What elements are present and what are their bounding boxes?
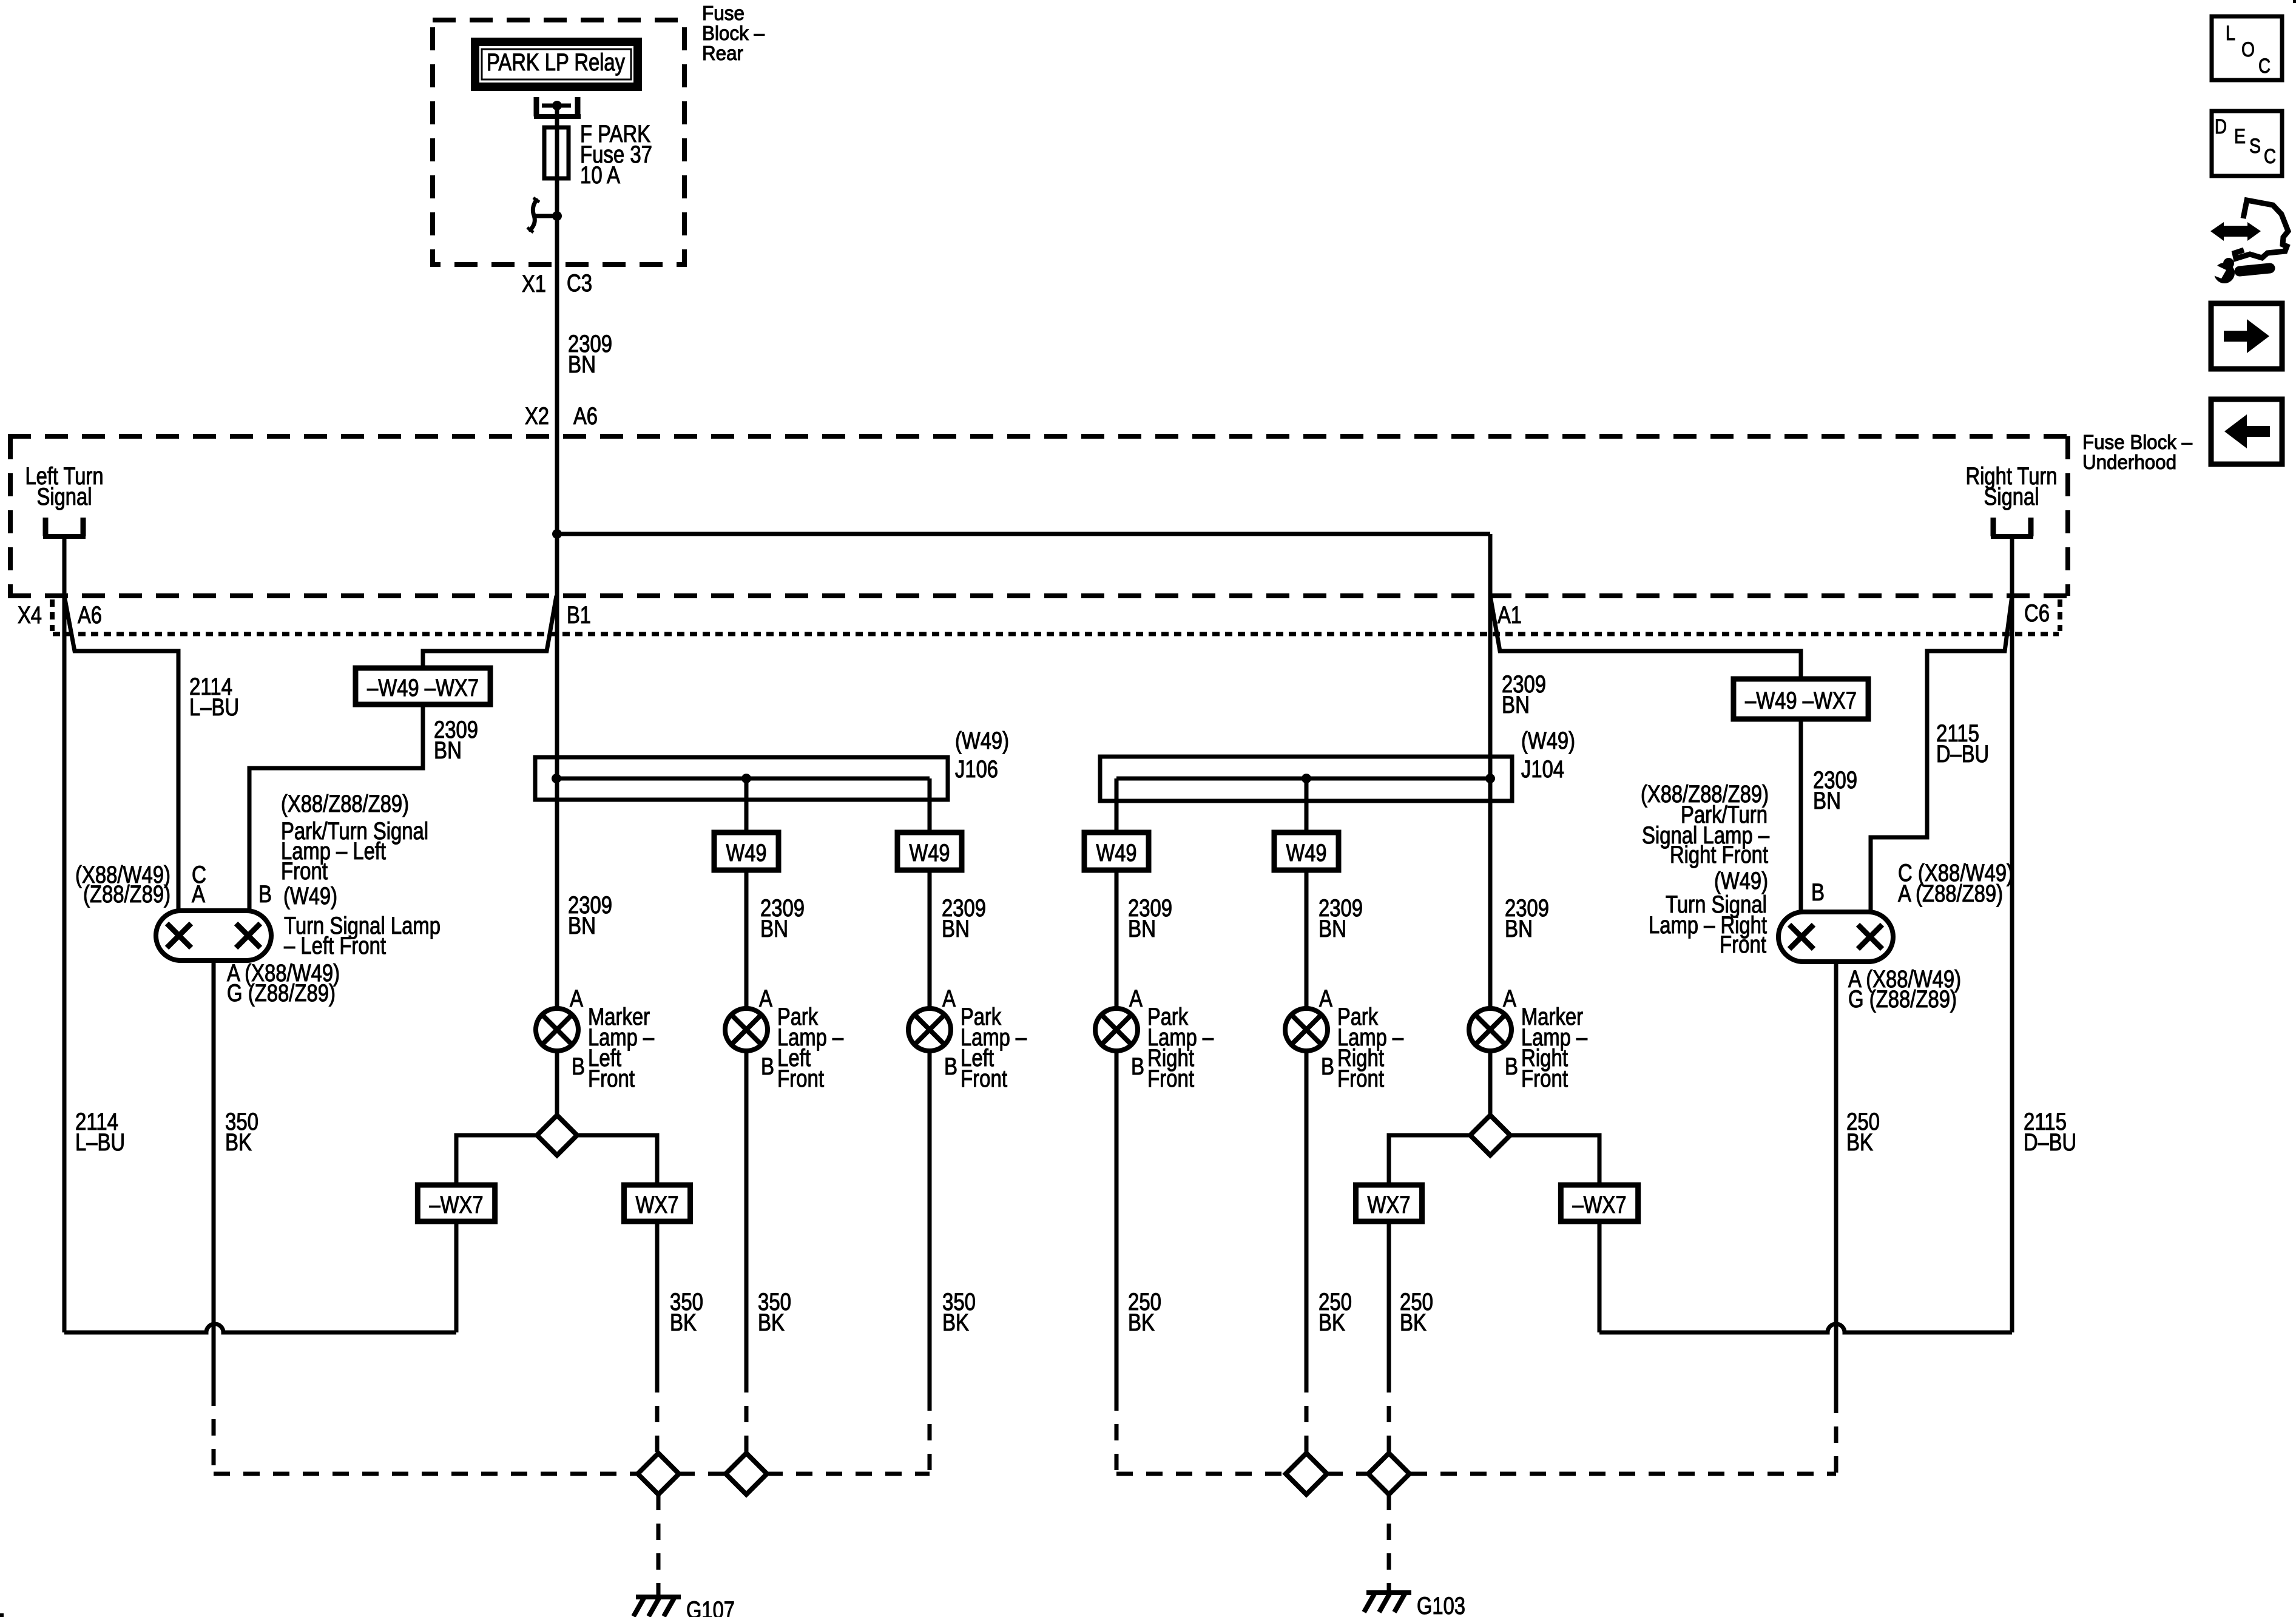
svg-text:A: A [942, 985, 956, 1012]
wire splice to -WX7 left [456, 1135, 537, 1185]
svg-text:Signal: Signal [1984, 484, 2039, 510]
svg-text:BK: BK [758, 1309, 785, 1336]
ground diamond park L1 [726, 1453, 767, 1494]
svg-text:(Z88/Z89): (Z88/Z89) [83, 881, 171, 908]
icon diagnostic (arrow wrench) [2207, 200, 2288, 283]
svg-text:C: C [2264, 145, 2276, 168]
wire WX7 right down [1387, 1221, 1391, 1376]
svg-text:B: B [1505, 1053, 1518, 1080]
wire W49 box1 to park lamp [745, 870, 749, 1008]
wire left turn signal down [62, 536, 67, 1332]
svg-text:BN: BN [1505, 916, 1533, 942]
wire W49 box4 to park lamp [1305, 870, 1309, 1008]
svg-text:–W49 –WX7: –W49 –WX7 [1745, 687, 1857, 714]
wire marker R to splice [1488, 1051, 1493, 1115]
svg-text:Front: Front [1521, 1065, 1568, 1092]
svg-text:BN: BN [1319, 916, 1346, 942]
svg-text:S: S [2249, 135, 2261, 158]
svg-text:Front: Front [1337, 1065, 1384, 1092]
fuse block - rear dashed box [433, 20, 684, 265]
svg-text:(W49): (W49) [283, 883, 337, 910]
svg-text:G107: G107 [686, 1597, 735, 1617]
option box WX7 right [1356, 1185, 1422, 1221]
svg-text:Front: Front [281, 858, 328, 885]
svg-text:J104: J104 [1521, 756, 1564, 783]
svg-text:B: B [761, 1053, 774, 1080]
wire to G107 [657, 1494, 661, 1595]
svg-text:D–BU: D–BU [2024, 1129, 2076, 1156]
svg-text:BN: BN [760, 916, 788, 942]
page corner mark top-right [2293, 0, 2296, 3]
svg-text:W49: W49 [1096, 840, 1137, 866]
wire park L1 ground [745, 1051, 749, 1376]
svg-text:PARK LP Relay: PARK LP Relay [487, 49, 625, 76]
relay contact switch symbol [552, 211, 562, 221]
svg-text:(W49): (W49) [1521, 727, 1575, 754]
junction block J106 [535, 757, 948, 800]
svg-text:L: L [2226, 22, 2235, 45]
horizontal 2114 wire with hop left [64, 1324, 456, 1332]
svg-text:B: B [944, 1053, 957, 1080]
park lamp - right front 1 [1095, 1008, 1138, 1051]
ground G103 [1366, 1590, 1411, 1595]
wire right turn lamp ground [1834, 962, 1838, 1397]
wire left turn lamp ground [212, 960, 216, 1389]
wire W49 box3 to park lamp [1115, 870, 1119, 1008]
wire marker L to splice [555, 1051, 559, 1115]
svg-text:Front: Front [1147, 1065, 1194, 1092]
svg-text:C6: C6 [2024, 600, 2050, 627]
svg-text:W49: W49 [910, 840, 950, 866]
svg-text:(W49): (W49) [955, 727, 1009, 754]
marker lamp - left front [536, 1008, 578, 1051]
wire A1 vertical [1488, 534, 1493, 778]
fuse block - underhood dashed box [8, 434, 2070, 439]
wire junction main to A1 [552, 529, 562, 539]
wire A6 branch slant [64, 596, 178, 911]
wire fuse to relay contact [555, 181, 559, 216]
horizontal 2115 wire with hop right [1599, 1324, 2012, 1332]
svg-text:BN: BN [1502, 692, 1530, 718]
svg-text:BK: BK [1846, 1129, 1873, 1156]
svg-text:A: A [1129, 985, 1143, 1012]
connector separator right [2058, 599, 2062, 631]
park lamp - left front 1 [725, 1008, 768, 1051]
page corner mark bottom-left [0, 1613, 4, 1617]
connector row dotted line [53, 632, 2059, 636]
svg-text:Front: Front [961, 1065, 1007, 1092]
svg-text:X2: X2 [525, 403, 549, 430]
svg-text:BN: BN [1128, 916, 1156, 942]
relay PARK LP Relay box [475, 42, 638, 87]
svg-text:A: A [1319, 985, 1332, 1012]
right turn signal switch terminal [1991, 518, 1996, 536]
svg-text:B: B [572, 1053, 585, 1080]
svg-text:– Left Front: – Left Front [284, 933, 386, 959]
svg-text:W49: W49 [726, 840, 767, 866]
junction block J104 [1100, 757, 1512, 801]
svg-text:BN: BN [434, 737, 462, 764]
svg-text:Fuse Block –: Fuse Block – [2082, 431, 2193, 453]
svg-text:G (Z88/Z89): G (Z88/Z89) [227, 980, 336, 1007]
W49 box 3 [1084, 832, 1149, 870]
svg-text:B: B [258, 881, 272, 908]
wire right turn signal down [2010, 536, 2014, 1332]
wire W49 box2 to park lamp [928, 870, 932, 1008]
wire 2309 BN main through J106 [555, 534, 559, 1008]
svg-text:WX7: WX7 [636, 1192, 679, 1218]
svg-text:A6: A6 [573, 403, 598, 430]
fuse F PARK Fuse 37 10 A [544, 127, 569, 178]
svg-text:A: A [759, 985, 772, 1012]
wire splice to -WX7 right [1510, 1135, 1599, 1185]
svg-text:J106: J106 [955, 756, 998, 783]
option box -W49 -WX7 left [356, 668, 490, 704]
svg-text:BK: BK [670, 1309, 697, 1336]
svg-text:BN: BN [568, 351, 596, 378]
wire park R2 ground [1305, 1051, 1309, 1376]
svg-text:D: D [2215, 115, 2227, 138]
svg-text:–W49 –WX7: –W49 –WX7 [367, 675, 479, 701]
svg-text:BN: BN [1813, 788, 1841, 814]
svg-text:10 A: 10 A [580, 162, 620, 189]
icon LOC box [2212, 16, 2282, 80]
option box -W49 -WX7 right [1734, 679, 1868, 719]
wire -WX7 left down [454, 1221, 459, 1332]
wire relay to fuse [555, 106, 559, 127]
svg-text:G (Z88/Z89): G (Z88/Z89) [1848, 986, 1957, 1013]
W49 box 4 [1274, 832, 1339, 870]
svg-text:BK: BK [1128, 1309, 1155, 1336]
wire park R1 ground [1115, 1051, 1119, 1394]
svg-text:A (Z88/Z89): A (Z88/Z89) [1898, 880, 2003, 907]
svg-text:Rear: Rear [702, 42, 743, 64]
wire WX7 left down [655, 1221, 660, 1376]
connector separator left [50, 599, 55, 631]
wire option box right to lamp B [1799, 719, 1803, 912]
svg-text:G103: G103 [1417, 1593, 1465, 1617]
park lamp - left front 2 [908, 1008, 951, 1051]
svg-text:(X88/Z88/Z89): (X88/Z88/Z89) [281, 791, 409, 817]
svg-text:X4: X4 [18, 602, 42, 629]
svg-text:WX7: WX7 [1368, 1192, 1411, 1218]
svg-text:A: A [570, 985, 583, 1012]
wire option box left to lamp B [249, 704, 423, 911]
svg-text:D–BU: D–BU [1936, 741, 1989, 768]
relay output terminal [534, 97, 539, 116]
splice left [537, 1115, 577, 1155]
svg-text:–WX7: –WX7 [1573, 1192, 1627, 1218]
W49 box 1 [714, 832, 778, 870]
svg-text:BK: BK [1319, 1309, 1345, 1336]
svg-text:Block –: Block – [702, 22, 765, 44]
ground diamond park R2 [1286, 1453, 1327, 1494]
svg-text:B: B [1321, 1053, 1334, 1080]
svg-text:A: A [192, 881, 205, 908]
icon DESC box [2212, 111, 2282, 176]
option box WX7 left [624, 1185, 690, 1221]
wire -WX7 right down [1598, 1221, 1602, 1332]
wire A1 branch slant [1490, 596, 1801, 679]
svg-text:B: B [1811, 879, 1825, 906]
svg-text:(W49): (W49) [1714, 868, 1768, 894]
svg-text:B1: B1 [567, 602, 591, 629]
wire J106 right end down [928, 778, 932, 832]
wire J104 to W49 box 4 [1305, 778, 1309, 832]
turn signal lamp - left front [156, 911, 271, 960]
svg-text:X1: X1 [522, 271, 546, 297]
wire splice to WX7 right [1389, 1135, 1470, 1185]
ground G107 [636, 1595, 681, 1599]
park lamp - right front 2 [1285, 1008, 1328, 1051]
wire park L2 ground [928, 1051, 932, 1394]
ground dashed line right [1116, 1472, 1286, 1476]
svg-text:BK: BK [942, 1309, 969, 1336]
wire C6 branch slant [1871, 596, 2012, 912]
svg-text:C3: C3 [567, 270, 592, 297]
svg-text:Fuse: Fuse [702, 2, 745, 24]
ground dashed line left [214, 1472, 638, 1476]
svg-text:C: C [2258, 55, 2271, 78]
svg-text:L–BU: L–BU [189, 694, 239, 721]
svg-text:BK: BK [225, 1129, 252, 1156]
svg-text:L–BU: L–BU [75, 1129, 125, 1156]
wire to G103 [1387, 1494, 1391, 1591]
wire B1 branch slant [423, 596, 556, 668]
option box -WX7 left [417, 1185, 495, 1221]
wire J106 to W49 box 1 [745, 778, 749, 832]
svg-text:Front: Front [777, 1065, 824, 1092]
svg-text:O: O [2241, 38, 2255, 61]
svg-text:BN: BN [568, 913, 596, 939]
svg-text:A1: A1 [1497, 602, 1522, 629]
wire 2309 BN through J104 to marker R [1488, 778, 1493, 1008]
left turn signal switch terminal [43, 518, 49, 536]
svg-text:A6: A6 [78, 602, 102, 629]
svg-text:Right Front: Right Front [1670, 842, 1768, 868]
W49 box 2 [897, 832, 962, 870]
svg-text:BK: BK [1400, 1309, 1427, 1336]
svg-text:BN: BN [942, 916, 970, 942]
svg-text:Front: Front [1720, 931, 1766, 958]
ground diamond WX7 left [638, 1453, 679, 1494]
marker lamp - right front [1469, 1008, 1511, 1051]
svg-text:A: A [1503, 985, 1516, 1012]
wire 2309 BN main vertical [555, 322, 559, 534]
ground diamond WX7 right [1368, 1453, 1410, 1494]
option box -WX7 right [1561, 1185, 1638, 1221]
icon arrow left box [2211, 399, 2282, 464]
svg-text:Underhood: Underhood [2082, 451, 2176, 473]
svg-text:W49: W49 [1286, 840, 1327, 866]
svg-text:Front: Front [588, 1065, 635, 1092]
svg-text:Signal: Signal [37, 484, 92, 510]
svg-text:E: E [2234, 125, 2246, 148]
splice right [1470, 1115, 1510, 1155]
wire J104 left end down [1115, 778, 1119, 832]
icon arrow right box [2211, 303, 2282, 369]
wire splice to WX7 left [577, 1135, 657, 1185]
wire to X1/C3 [555, 216, 559, 322]
svg-text:B: B [1131, 1053, 1144, 1080]
svg-text:–WX7: –WX7 [430, 1192, 484, 1218]
turn signal lamp - right front [1778, 912, 1893, 962]
